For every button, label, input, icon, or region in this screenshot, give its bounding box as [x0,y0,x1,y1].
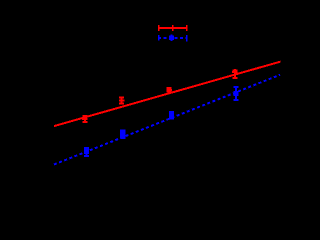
red data point R2 error bar [119,98,124,104]
red data point R4 error bar [232,71,237,78]
blue data point B4 marker [234,91,239,96]
blue data point B4 error bar [234,87,239,100]
legend red sample ticks [159,25,187,31]
blue data point B3 error bar [169,112,174,119]
red fitted line [54,62,281,127]
red data point R1 marker [82,116,87,121]
blue data point B3 marker [169,111,174,119]
legend blue sample dashed line [158,37,187,39]
legend blue sample end ticks [159,35,187,41]
legend blue sample square marker [169,35,174,40]
blue data point B1 marker [84,149,89,154]
blue fitted dashed line [54,75,280,165]
blue data point B2 error bar [121,131,126,138]
blue data point B1 error bar [84,148,89,156]
red data point R2 marker [119,98,124,103]
red data point R4 marker [232,69,237,74]
red data point R3 marker [167,87,172,92]
legend blue sample center tick [171,35,173,41]
legend red sample line [158,27,187,29]
red data point R1 error bar [82,116,87,122]
blue data point B2 marker [120,130,126,139]
red data point R3 error bar [167,88,172,91]
